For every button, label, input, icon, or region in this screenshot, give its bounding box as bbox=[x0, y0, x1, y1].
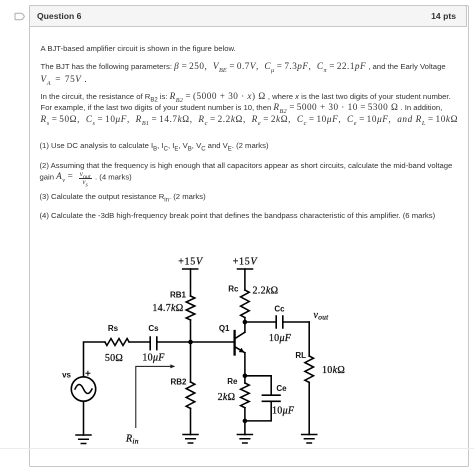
svg-text:vs: vs bbox=[62, 371, 71, 380]
resistor RB1 bbox=[186, 296, 195, 320]
svg-text:Rs: Rs bbox=[108, 324, 119, 333]
svg-text:10kΩ: 10kΩ bbox=[322, 365, 345, 376]
svg-text:Rin: Rin bbox=[125, 434, 139, 446]
label RB2 bbox=[170, 377, 187, 386]
value 10uF (Cs) bbox=[142, 352, 165, 363]
node base junction bbox=[188, 340, 193, 345]
ground (Re) bbox=[237, 435, 252, 444]
svg-text:Ce: Ce bbox=[276, 384, 287, 393]
svg-text:+15V: +15V bbox=[233, 256, 259, 267]
label Rc bbox=[228, 284, 239, 293]
svg-text:Re: Re bbox=[227, 377, 238, 386]
svg-text:10μF: 10μF bbox=[142, 352, 165, 363]
source vs bbox=[71, 377, 95, 401]
power terminal bar VCC1 bbox=[183, 268, 198, 270]
label Re bbox=[227, 377, 238, 386]
svg-text:+15V: +15V bbox=[178, 256, 204, 267]
power terminal bar VCC2 bbox=[238, 268, 253, 270]
label Cc bbox=[274, 305, 285, 314]
label +15V (left supply) bbox=[178, 256, 204, 267]
wire collector vertical bbox=[244, 322, 246, 332]
wire Cs to base of Q1 bbox=[157, 341, 234, 343]
value 2kOhm bbox=[218, 392, 236, 403]
value 10uF (Cc) bbox=[269, 333, 292, 344]
svg-text:RB1: RB1 bbox=[170, 290, 187, 299]
wire emitter node to Ce top bbox=[245, 376, 271, 395]
transistor Q1 bbox=[235, 331, 245, 355]
value 50Ohm bbox=[105, 353, 123, 364]
svg-text:RB2: RB2 bbox=[170, 377, 187, 386]
label Cs bbox=[148, 324, 159, 333]
node emitter junction bbox=[243, 374, 248, 379]
resistor Re bbox=[241, 383, 250, 408]
label vs bbox=[62, 371, 71, 380]
capacitor Ce bbox=[262, 395, 280, 401]
wire RB1 to base node bbox=[190, 320, 192, 342]
wire Rs to Cs bbox=[129, 341, 150, 343]
Rin indicator arrow bbox=[136, 364, 176, 427]
capacitor Cs bbox=[150, 337, 157, 350]
svg-text:Q1: Q1 bbox=[219, 324, 230, 333]
label vout bbox=[314, 310, 330, 322]
label +15V (right supply) bbox=[233, 256, 259, 267]
label Ce bbox=[276, 384, 287, 393]
plus sign of vs bbox=[86, 371, 90, 375]
value 10kOhm bbox=[322, 365, 345, 376]
ground (RL) bbox=[302, 435, 317, 444]
value 2.2kOhm bbox=[253, 285, 279, 296]
wire emitter node to Re bbox=[244, 376, 246, 383]
svg-text:vout: vout bbox=[314, 310, 330, 322]
flag icon bbox=[14, 12, 26, 22]
label Rin bbox=[125, 434, 139, 446]
node collector junction bbox=[243, 320, 248, 325]
svg-text:50Ω: 50Ω bbox=[105, 353, 123, 364]
svg-text:RL: RL bbox=[295, 351, 306, 360]
label RB1 bbox=[170, 290, 187, 299]
label Rs bbox=[108, 324, 119, 333]
wire bottom node to ground bbox=[244, 421, 246, 435]
wire RL to ground bbox=[308, 382, 310, 434]
svg-text:2.2kΩ: 2.2kΩ bbox=[253, 285, 279, 296]
wire VCC1 to RB1 bbox=[190, 269, 192, 296]
ground (RB2) bbox=[183, 435, 198, 444]
svg-text:10μF: 10μF bbox=[272, 405, 295, 416]
wire collector node to Cc bbox=[245, 321, 276, 323]
sine wave inside vs bbox=[75, 385, 92, 394]
wire vs to Rs bbox=[84, 342, 105, 377]
circuit schematic bbox=[55, 250, 360, 448]
wire VCC2 to Rc bbox=[244, 269, 246, 290]
resistor Rc bbox=[241, 290, 250, 318]
wire Rc to collector node bbox=[244, 318, 246, 322]
wire emitter to emitter node bbox=[244, 353, 246, 376]
resistor RL bbox=[305, 356, 314, 382]
svg-text:Cc: Cc bbox=[274, 305, 285, 314]
wire RB2 to ground bbox=[190, 408, 192, 434]
wire Re to bottom node bbox=[244, 408, 246, 421]
value 10uF (Ce) bbox=[272, 405, 295, 416]
wire Cc to vout corner bbox=[283, 321, 309, 323]
svg-text:10μF: 10μF bbox=[269, 333, 292, 344]
value 14.7kOhm bbox=[152, 303, 183, 314]
svg-text:2kΩ: 2kΩ bbox=[218, 392, 236, 403]
wire base node to RB2 bbox=[190, 342, 192, 382]
node Re bottom junction bbox=[243, 419, 248, 424]
svg-text:Cs: Cs bbox=[148, 324, 159, 333]
wire vs to ground bbox=[83, 401, 85, 435]
capacitor Cc bbox=[276, 316, 283, 328]
wire vout to RL bbox=[308, 322, 310, 356]
label Q1 bbox=[219, 324, 230, 333]
resistor Rs bbox=[105, 339, 129, 346]
svg-text:Rc: Rc bbox=[228, 284, 239, 293]
label RL bbox=[295, 351, 306, 360]
svg-text:14.7kΩ: 14.7kΩ bbox=[152, 303, 183, 314]
ground (vs) bbox=[76, 435, 91, 444]
resistor RB2 bbox=[186, 382, 195, 408]
wire Ce bottom to bottom node bbox=[245, 402, 271, 421]
